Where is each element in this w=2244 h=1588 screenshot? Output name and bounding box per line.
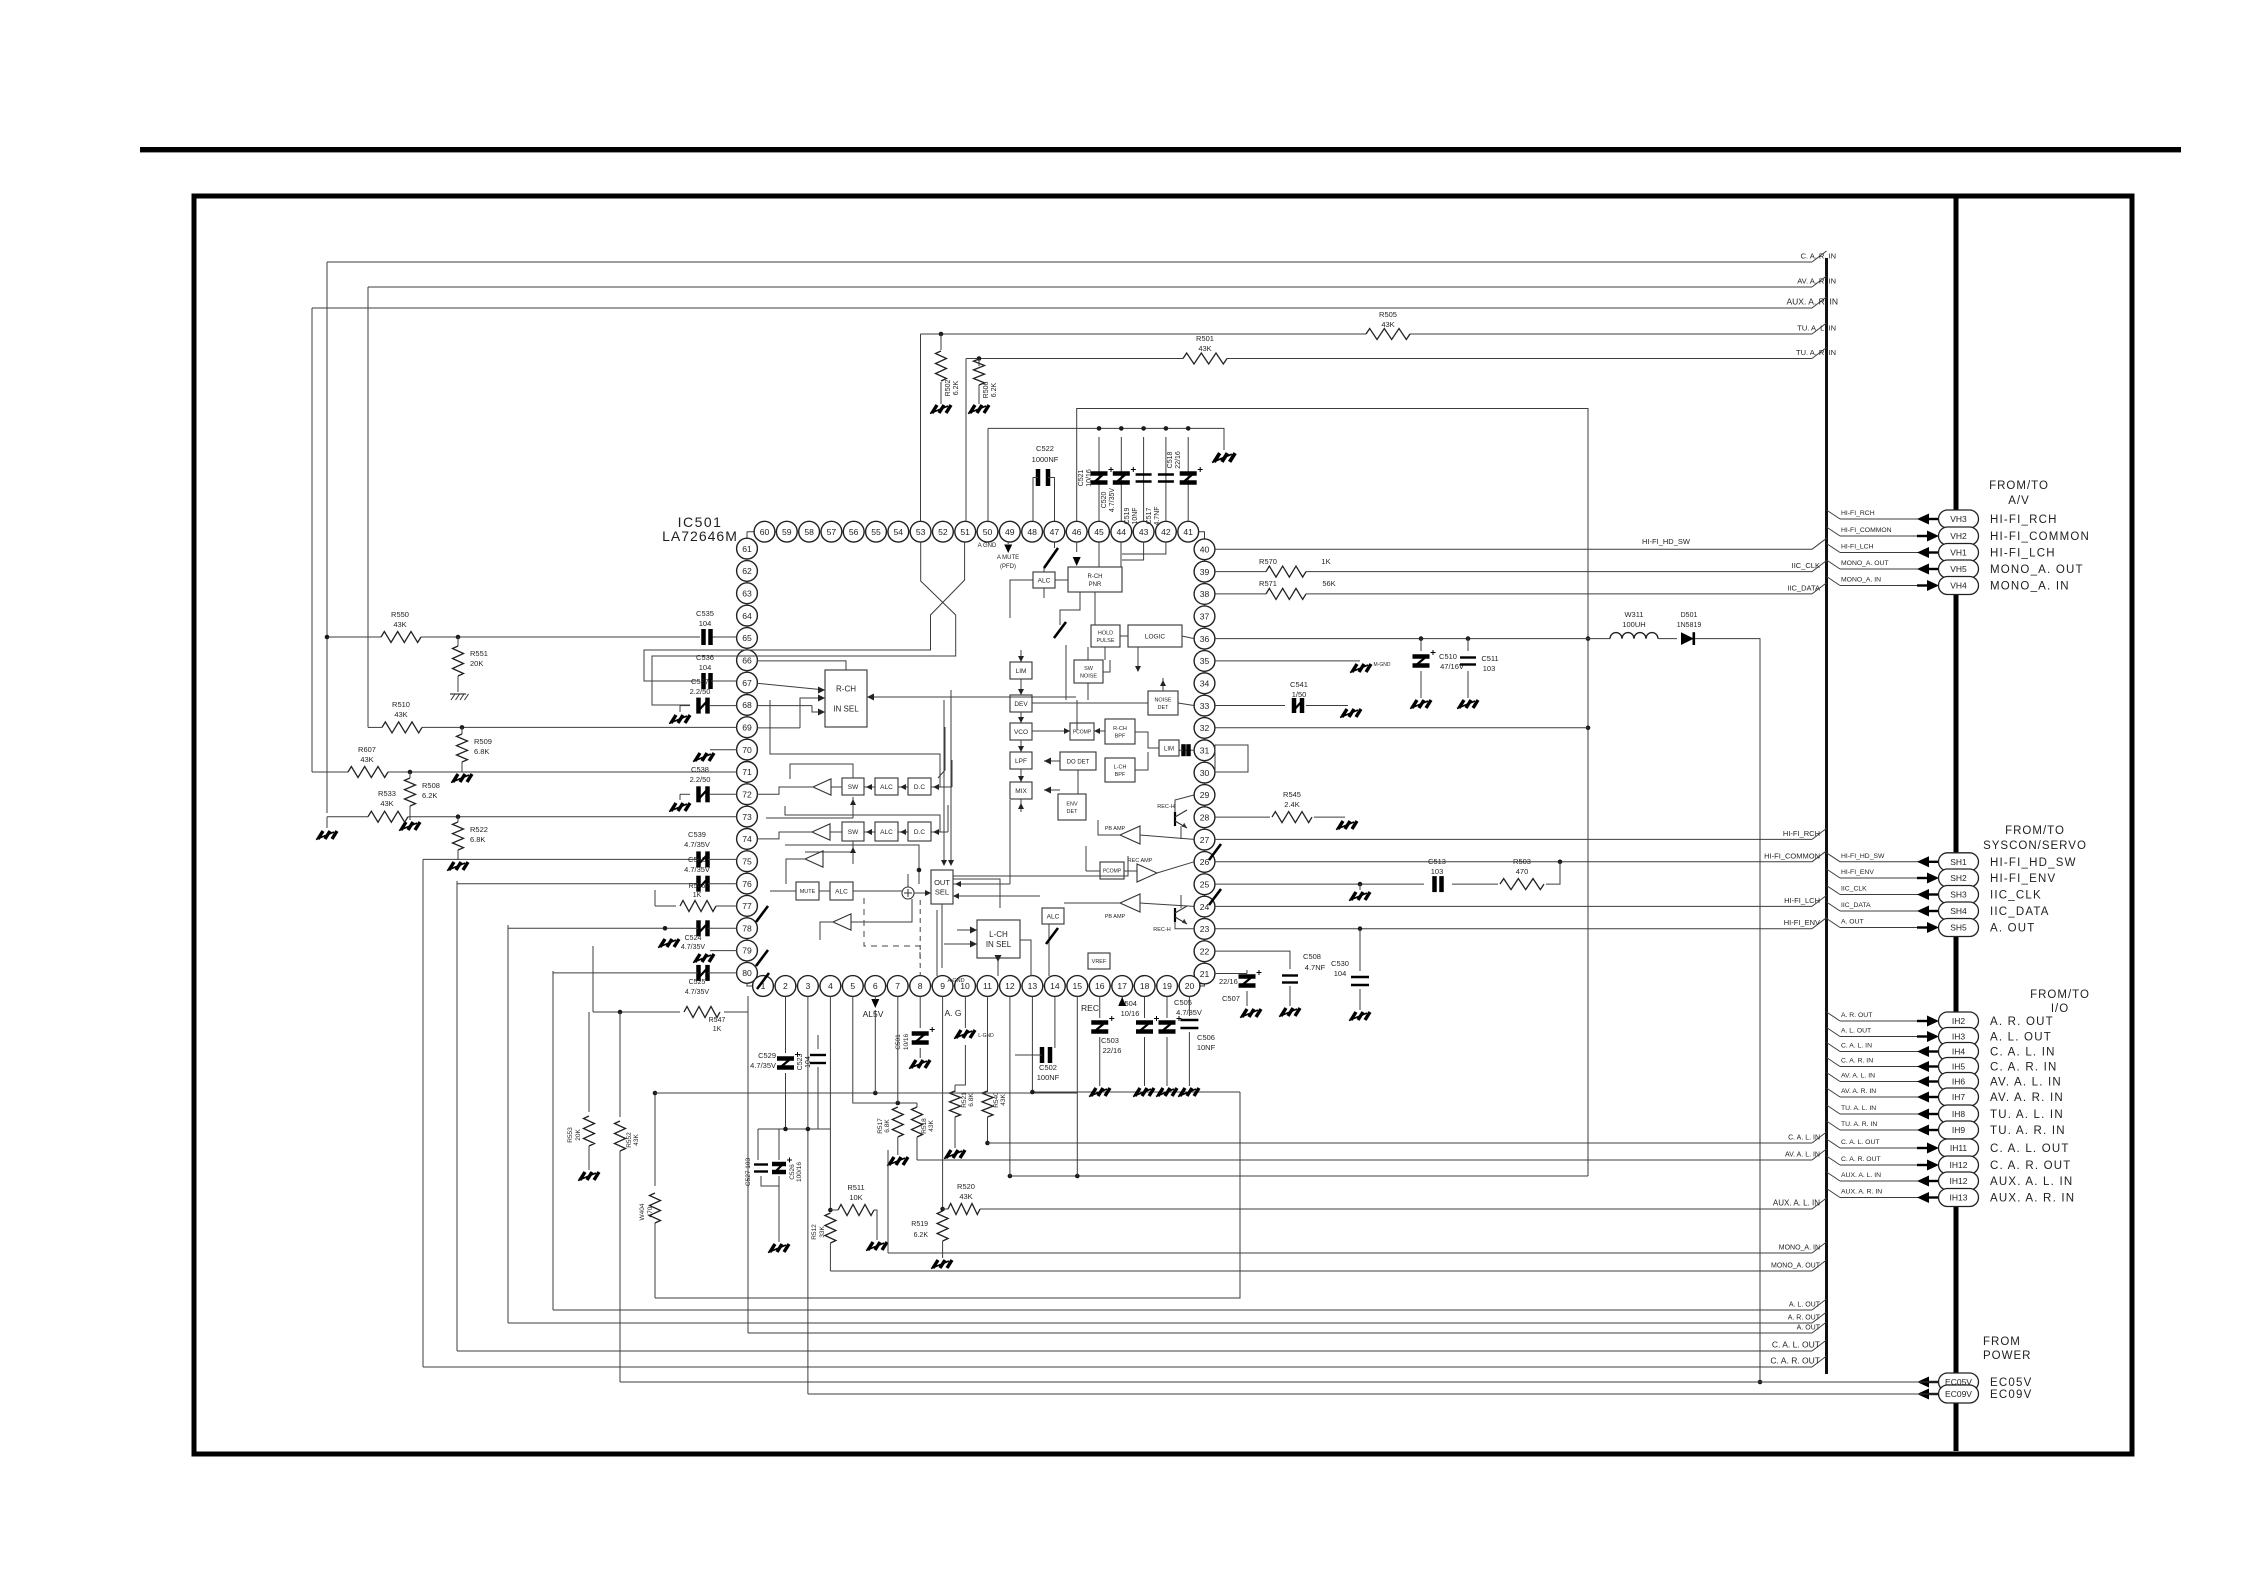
capacitor C530 bbox=[1331, 929, 1369, 1010]
svg-text:R550: R550 bbox=[391, 610, 409, 619]
svg-text:A. OUT: A. OUT bbox=[1841, 919, 1864, 926]
svg-text:ALC: ALC bbox=[1047, 913, 1060, 920]
svg-text:MUTE: MUTE bbox=[800, 889, 816, 895]
resistor R509 bbox=[457, 727, 492, 772]
svg-text:R-CH: R-CH bbox=[836, 685, 856, 694]
svg-text:37: 37 bbox=[1200, 611, 1210, 621]
svg-text:A. OUT: A. OUT bbox=[1990, 923, 2036, 935]
ground R545 bbox=[1336, 821, 1357, 830]
svg-text:C519: C519 bbox=[1124, 508, 1131, 525]
svg-text:TU. A. R. IN: TU. A. R. IN bbox=[1841, 1121, 1877, 1128]
wire pin17 arrow bbox=[1118, 996, 1126, 1006]
svg-text:TU. A. L. IN: TU. A. L. IN bbox=[1841, 1105, 1876, 1112]
svg-text:ENV: ENV bbox=[1066, 801, 1078, 807]
svg-text:7: 7 bbox=[895, 981, 900, 991]
block PCOMP 1 bbox=[1070, 723, 1094, 740]
capacitor C522 bbox=[1032, 444, 1059, 486]
wire TU.A.L.IN rail bbox=[921, 323, 1837, 336]
svg-text:VCO: VCO bbox=[1014, 729, 1028, 736]
svg-text:TU. A. L. IN: TU. A. L. IN bbox=[1990, 1109, 2064, 1121]
ground R533 bbox=[316, 817, 337, 840]
capacitor C503 bbox=[1091, 1016, 1121, 1086]
svg-text:IH9: IH9 bbox=[1952, 1125, 1966, 1135]
wire pin22 C508 bbox=[1215, 951, 1290, 969]
IC501 ring outline bbox=[747, 532, 1205, 986]
svg-text:R540: R540 bbox=[993, 1092, 1000, 1108]
svg-text:26: 26 bbox=[1200, 857, 1210, 867]
resistor R553 bbox=[567, 1012, 595, 1170]
svg-text:C502: C502 bbox=[1039, 1063, 1057, 1072]
pin49 A MUTE arrow bbox=[1004, 542, 1012, 553]
wire pin15 leg bbox=[1076, 996, 1078, 1176]
svg-text:44: 44 bbox=[1117, 527, 1127, 537]
svg-text:VH2: VH2 bbox=[1950, 531, 1967, 541]
wire pin50 A GND up bbox=[987, 428, 989, 521]
svg-text:11: 11 bbox=[983, 981, 992, 991]
svg-text:IIC_DATA: IIC_DATA bbox=[1990, 906, 2050, 918]
capacitor C513 bbox=[1428, 857, 1446, 892]
ground C526 bbox=[768, 1244, 789, 1253]
block L-CH BPF bbox=[1105, 758, 1135, 782]
svg-text:D.C: D.C bbox=[914, 829, 926, 836]
svg-text:AUX. A. L. IN: AUX. A. L. IN bbox=[1841, 1172, 1881, 1179]
ground R519 bbox=[931, 1260, 952, 1269]
switch pin 24 bbox=[1209, 889, 1221, 905]
wire pin20 C506 leg bbox=[1188, 996, 1190, 1016]
svg-text:6.2K: 6.2K bbox=[914, 1232, 929, 1239]
wire pin7 leg bbox=[897, 996, 899, 1103]
wire AV.A.R.IN vertical bbox=[367, 287, 369, 727]
block D.C 1 bbox=[908, 778, 931, 795]
label REC bbox=[1081, 1003, 1099, 1013]
wire pin5 leg bbox=[853, 996, 917, 1105]
wire pin10 A.G bbox=[944, 996, 965, 1028]
block ALC 4 bbox=[1042, 908, 1064, 924]
ground pin70 bbox=[693, 753, 714, 762]
amp PB AMP 1 bbox=[1105, 826, 1140, 844]
svg-text:R519: R519 bbox=[911, 1221, 928, 1228]
wire pin8 C501 leg bbox=[919, 996, 921, 1028]
svg-text:C. A. L. IN: C. A. L. IN bbox=[1841, 1043, 1872, 1050]
block D.C 2 bbox=[908, 822, 931, 841]
wire pin9 leg bbox=[942, 996, 944, 1209]
svg-text:58: 58 bbox=[804, 527, 814, 537]
svg-text:ALC: ALC bbox=[835, 888, 848, 895]
svg-text:PB AMP: PB AMP bbox=[1105, 914, 1126, 920]
wire y1298 rail bbox=[653, 1091, 1240, 1298]
resistor R510 bbox=[382, 700, 422, 733]
svg-text:SW: SW bbox=[848, 784, 859, 791]
svg-text:HI-FI_COMMON: HI-FI_COMMON bbox=[1990, 531, 2090, 543]
capacitor C529 bbox=[750, 1051, 800, 1129]
resistor R521 bbox=[950, 1085, 976, 1148]
transistor REC-H upper bbox=[1157, 804, 1187, 828]
svg-text:67: 67 bbox=[742, 678, 752, 688]
svg-text:43K: 43K bbox=[633, 1134, 640, 1146]
svg-text:IIC_DATA: IIC_DATA bbox=[1841, 902, 1871, 909]
capacitor C539 bbox=[684, 830, 737, 867]
svg-text:9: 9 bbox=[940, 981, 945, 991]
wire pin21 C507 bbox=[1215, 973, 1247, 975]
svg-text:59: 59 bbox=[782, 527, 792, 537]
svg-text:74: 74 bbox=[742, 834, 752, 844]
wire TU.A.R.IN rail bbox=[966, 348, 1836, 361]
diode D501 bbox=[1677, 612, 1702, 645]
svg-text:13: 13 bbox=[1028, 981, 1038, 991]
svg-text:A. L. OUT: A. L. OUT bbox=[1789, 1302, 1821, 1309]
schematic border frame bbox=[194, 196, 2132, 1454]
svg-text:AUX. A. L. IN: AUX. A. L. IN bbox=[1990, 1176, 2073, 1188]
svg-text:10/16: 10/16 bbox=[1121, 1009, 1140, 1018]
svg-text:16: 16 bbox=[1095, 981, 1105, 991]
label A GND pin10 bbox=[947, 978, 964, 984]
svg-text:20K: 20K bbox=[575, 1129, 582, 1141]
IC501 reference label bbox=[662, 514, 738, 544]
svg-text:R503: R503 bbox=[1513, 857, 1531, 866]
capacitor C501 bbox=[895, 1027, 935, 1058]
svg-text:IH2: IH2 bbox=[1952, 1016, 1966, 1026]
svg-text:C. A. R. IN: C. A. R. IN bbox=[1801, 252, 1836, 261]
svg-text:53: 53 bbox=[916, 527, 926, 537]
svg-text:LA72646M: LA72646M bbox=[662, 528, 738, 544]
svg-text:R552: R552 bbox=[626, 1132, 633, 1148]
connector IH4 C. A. L. IN bbox=[1827, 1043, 2056, 1061]
svg-text:HI-FI_ENV: HI-FI_ENV bbox=[1990, 873, 2056, 885]
block HOLD PULSE bbox=[1091, 625, 1120, 647]
block LIM 2 bbox=[1159, 740, 1179, 756]
wire pin16 C503 leg bbox=[1099, 996, 1101, 1018]
svg-text:MIX: MIX bbox=[1015, 788, 1027, 795]
svg-text:71: 71 bbox=[742, 767, 752, 777]
capacitor C502 bbox=[1015, 1047, 1060, 1082]
header FROM/TO I/O bbox=[2030, 989, 2090, 1015]
svg-text:43K: 43K bbox=[959, 1192, 972, 1201]
ground C538 bbox=[669, 803, 690, 812]
svg-text:PULSE: PULSE bbox=[1096, 638, 1114, 644]
switch pin 79 bbox=[756, 950, 768, 966]
wire pin24 HI-FI_LCH rail bbox=[1215, 895, 1827, 906]
svg-text:M-GND: M-GND bbox=[1374, 662, 1391, 668]
resistor R502 bbox=[936, 334, 961, 404]
block MUTE bbox=[796, 882, 819, 900]
svg-text:R521: R521 bbox=[961, 1092, 968, 1108]
ground R508 bbox=[399, 822, 420, 831]
svg-text:C510: C510 bbox=[1439, 652, 1457, 661]
svg-text:22/16: 22/16 bbox=[1175, 451, 1182, 469]
ground C503 bbox=[1089, 1088, 1110, 1097]
ground A GND rail bbox=[1212, 453, 1235, 462]
svg-text:R501: R501 bbox=[1196, 334, 1214, 343]
svg-text:43K: 43K bbox=[360, 755, 373, 764]
svg-text:22: 22 bbox=[1200, 946, 1210, 956]
block R-CH PNR bbox=[1068, 567, 1122, 592]
resistor R505 bbox=[1366, 310, 1410, 340]
ground C507 bbox=[1240, 1009, 1261, 1018]
svg-text:C517: C517 bbox=[1146, 508, 1153, 525]
svg-text:65: 65 bbox=[742, 633, 752, 643]
wire pin12 leg bbox=[1009, 996, 1011, 1176]
svg-text:A. L. OUT: A. L. OUT bbox=[1990, 1032, 2052, 1044]
label A MUTE bbox=[997, 555, 1019, 570]
svg-text:C. A. R. OUT: C. A. R. OUT bbox=[1770, 1356, 1820, 1366]
svg-text:HI-FI_COMMON: HI-FI_COMMON bbox=[1764, 851, 1820, 860]
svg-text:33K: 33K bbox=[819, 1226, 826, 1238]
wire REC rail y1176 bbox=[1008, 1174, 1588, 1179]
resistor R570 bbox=[1259, 557, 1331, 577]
svg-text:EC09V: EC09V bbox=[1990, 1389, 2032, 1401]
resistor R522 bbox=[453, 817, 488, 860]
svg-text:31: 31 bbox=[1200, 745, 1210, 755]
svg-text:69: 69 bbox=[742, 722, 752, 732]
capacitor C504 bbox=[1119, 999, 1159, 1086]
svg-text:23: 23 bbox=[1200, 924, 1210, 934]
svg-text:MONO_A. OUT: MONO_A. OUT bbox=[1771, 1263, 1821, 1270]
svg-text:OUT: OUT bbox=[934, 878, 950, 887]
svg-text:LOGIC: LOGIC bbox=[1145, 633, 1166, 640]
svg-text:35: 35 bbox=[1200, 656, 1210, 666]
wire pin46 B+ net bbox=[1077, 409, 1591, 1177]
wire pin6 down bbox=[874, 1010, 876, 1093]
svg-text:D501: D501 bbox=[1681, 612, 1698, 619]
svg-text:56: 56 bbox=[849, 527, 859, 537]
svg-text:42: 42 bbox=[1161, 527, 1171, 537]
svg-text:A. OUT: A. OUT bbox=[1797, 1325, 1821, 1332]
svg-text:10NF: 10NF bbox=[1132, 507, 1139, 524]
block VCO bbox=[1010, 723, 1032, 740]
svg-text:R520: R520 bbox=[957, 1182, 975, 1191]
svg-text:SW: SW bbox=[848, 829, 859, 836]
ground R502 bbox=[930, 405, 951, 414]
wire EC05V rail bbox=[620, 1381, 1916, 1383]
ground C508 bbox=[1279, 1008, 1300, 1017]
svg-text:4.7/35V: 4.7/35V bbox=[1109, 488, 1116, 512]
wire MONO_A.IN rail bbox=[888, 1242, 1827, 1253]
svg-text:SH4: SH4 bbox=[1950, 906, 1967, 916]
svg-text:C522: C522 bbox=[1036, 444, 1054, 453]
svg-text:4.7/35V: 4.7/35V bbox=[684, 865, 710, 874]
svg-text:C. A. R. OUT: C. A. R. OUT bbox=[1990, 1160, 2072, 1172]
wire A GND rail bbox=[988, 426, 1224, 450]
capacitor C525 bbox=[685, 965, 737, 996]
svg-text:TU. A. R. IN: TU. A. R. IN bbox=[1796, 348, 1836, 357]
wire pin3 EC09V leg bbox=[807, 996, 809, 1394]
wire pin14 C502 bbox=[1054, 996, 1056, 1048]
wire pin51 up bbox=[965, 359, 967, 522]
connector IH5 C. A. R. IN bbox=[1827, 1058, 2058, 1076]
svg-text:15: 15 bbox=[1073, 981, 1083, 991]
capacitor C540 bbox=[684, 855, 737, 892]
svg-text:HOLD: HOLD bbox=[1098, 630, 1113, 636]
wire pin69 rail bbox=[368, 725, 737, 730]
svg-text:41: 41 bbox=[1183, 527, 1193, 537]
switch pin 47 inner bbox=[1054, 622, 1066, 638]
resistor R540 bbox=[982, 996, 1007, 1143]
svg-text:43K: 43K bbox=[1000, 1094, 1007, 1106]
svg-text:10K: 10K bbox=[849, 1193, 862, 1202]
capacitor C506 bbox=[1180, 1020, 1215, 1086]
svg-text:1K: 1K bbox=[1321, 557, 1330, 566]
capacitor C507 bbox=[1219, 970, 1262, 1006]
svg-text:IH4: IH4 bbox=[1952, 1047, 1966, 1057]
wire pin39 IIC_CLK rail bbox=[1215, 561, 1827, 572]
wire pin1 A.OUT net bbox=[747, 996, 749, 1333]
svg-text:68: 68 bbox=[742, 700, 752, 710]
svg-text:C508: C508 bbox=[1303, 952, 1321, 961]
section divider line bbox=[1954, 198, 1959, 1451]
svg-text:77: 77 bbox=[742, 901, 752, 911]
svg-text:SH5: SH5 bbox=[1950, 923, 1967, 933]
wire pin65 rail bbox=[325, 635, 737, 640]
svg-text:38: 38 bbox=[1200, 589, 1210, 599]
capacitor C520 bbox=[1101, 437, 1136, 521]
svg-text:AV. A. R. IN: AV. A. R. IN bbox=[1797, 277, 1836, 286]
wire pin36 supply rail bbox=[1215, 636, 1610, 641]
buffer amp 4 bbox=[833, 914, 851, 930]
svg-text:C521: C521 bbox=[1078, 470, 1085, 487]
wire C.A.L.IN rail bbox=[985, 1132, 1826, 1145]
svg-text:25: 25 bbox=[1200, 879, 1210, 889]
svg-text:10/16: 10/16 bbox=[1086, 469, 1093, 487]
svg-text:IH13: IH13 bbox=[1950, 1193, 1968, 1203]
svg-text:LPF: LPF bbox=[1015, 758, 1027, 765]
svg-text:A GND: A GND bbox=[947, 978, 964, 984]
resistor R511 bbox=[828, 1183, 877, 1240]
svg-text:2.2/50: 2.2/50 bbox=[690, 687, 711, 696]
block SW NOISE bbox=[1074, 660, 1103, 683]
svg-text:C535: C535 bbox=[696, 609, 714, 618]
svg-text:4.7/35V: 4.7/35V bbox=[750, 1061, 776, 1070]
wire D501 down bbox=[1695, 639, 1762, 1385]
svg-text:REC-H: REC-H bbox=[1153, 927, 1170, 933]
svg-text:43K: 43K bbox=[394, 710, 407, 719]
svg-text:C529: C529 bbox=[758, 1051, 776, 1060]
wire A.R.OUT rail bbox=[508, 1312, 1827, 1323]
svg-text:1/50: 1/50 bbox=[1292, 690, 1307, 699]
svg-text:6.8K: 6.8K bbox=[470, 835, 485, 844]
svg-text:HI-FI_HD_SW: HI-FI_HD_SW bbox=[1642, 537, 1691, 546]
connector IH8 TU. A. L. IN bbox=[1827, 1105, 2064, 1123]
svg-text:VH5: VH5 bbox=[1950, 564, 1967, 574]
svg-text:R517: R517 bbox=[877, 1118, 884, 1134]
svg-text:A. G: A. G bbox=[944, 1008, 961, 1018]
svg-text:SH3: SH3 bbox=[1950, 890, 1967, 900]
wire C.A.L.OUT rail bbox=[457, 1340, 1827, 1352]
svg-text:IH6: IH6 bbox=[1952, 1077, 1966, 1087]
svg-text:IH12: IH12 bbox=[1950, 1176, 1968, 1186]
ground C530 bbox=[1349, 1012, 1370, 1021]
loop wire pin 31-30 bbox=[1215, 745, 1248, 772]
block DEV bbox=[1010, 695, 1032, 712]
svg-text:C. A. R. OUT: C. A. R. OUT bbox=[1841, 1156, 1881, 1163]
svg-text:R571: R571 bbox=[1259, 579, 1277, 588]
svg-text:A/V: A/V bbox=[2008, 495, 2030, 507]
wire C.A.R.IN rail bbox=[327, 251, 1836, 262]
svg-text:NOISE: NOISE bbox=[1080, 673, 1097, 679]
svg-text:C538: C538 bbox=[691, 765, 709, 774]
svg-text:AUX. A. R. IN: AUX. A. R. IN bbox=[1841, 1189, 1882, 1196]
svg-text:2.4K: 2.4K bbox=[1284, 800, 1299, 809]
svg-text:6.8K: 6.8K bbox=[968, 1093, 975, 1107]
svg-text:AV. A. R. IN: AV. A. R. IN bbox=[1990, 1092, 2064, 1104]
capacitor C537 bbox=[680, 677, 737, 714]
svg-text:1K: 1K bbox=[693, 892, 702, 899]
svg-text:R518: R518 bbox=[921, 1118, 928, 1134]
svg-text:C539: C539 bbox=[688, 830, 706, 839]
svg-text:ALC: ALC bbox=[880, 784, 893, 791]
svg-text:AL5V: AL5V bbox=[863, 1009, 884, 1019]
ground R551 hatch bbox=[450, 694, 469, 700]
block ALC 3 bbox=[830, 882, 853, 900]
wire pin40 HD_SW rail bbox=[1215, 537, 1827, 549]
wire pin27 HI-FI_RCH rail bbox=[1215, 828, 1827, 839]
svg-text:76: 76 bbox=[742, 879, 752, 889]
svg-text:VH1: VH1 bbox=[1950, 548, 1967, 558]
svg-text:HI-FI_RCH: HI-FI_RCH bbox=[1990, 514, 2058, 526]
IC501 pin circles 1-80 bbox=[737, 521, 1215, 996]
svg-text:MONO_A. IN: MONO_A. IN bbox=[1841, 577, 1881, 584]
wire pin26 HI-FI_COMMON rail bbox=[1215, 851, 1827, 864]
svg-text:L-GND: L-GND bbox=[978, 1033, 994, 1039]
svg-text:MONO_A. OUT: MONO_A. OUT bbox=[1990, 564, 2084, 576]
svg-text:POWER: POWER bbox=[1983, 1350, 2031, 1362]
wire MONO_A.IN leg bbox=[887, 1150, 889, 1253]
svg-text:54: 54 bbox=[894, 527, 904, 537]
switch pin 26 bbox=[1209, 844, 1221, 860]
connector IH6 AV. A. L. IN bbox=[1827, 1073, 2062, 1091]
resistor R518 bbox=[912, 1103, 936, 1160]
connector SH3 bbox=[1827, 886, 2042, 904]
svg-text:56K: 56K bbox=[1322, 579, 1335, 588]
block LOGIC bbox=[1128, 625, 1182, 647]
svg-text:R607: R607 bbox=[358, 745, 376, 754]
svg-text:20: 20 bbox=[1185, 981, 1195, 991]
block NOISE DET bbox=[1148, 691, 1178, 715]
label A GND pin50 bbox=[978, 543, 997, 549]
svg-text:43K: 43K bbox=[380, 799, 393, 808]
ground R521 bbox=[944, 1150, 965, 1159]
svg-text:R547: R547 bbox=[709, 1017, 726, 1024]
svg-text:HI-FI_COMMON: HI-FI_COMMON bbox=[1841, 527, 1892, 534]
svg-text:C523: C523 bbox=[797, 1054, 804, 1071]
capacitor C527 bbox=[745, 1158, 768, 1187]
block PCOMP 2 bbox=[1100, 862, 1124, 879]
svg-text:HI-FI_LCH: HI-FI_LCH bbox=[1990, 548, 2056, 560]
transistor REC-H lower bbox=[1153, 906, 1187, 933]
wire EC09V rail bbox=[808, 1393, 1916, 1395]
svg-text:D.C: D.C bbox=[914, 784, 926, 791]
wire W311-D501 bbox=[1658, 638, 1677, 640]
resistor R533 bbox=[368, 789, 408, 822]
header FROM/TO SYSCON/SERVO bbox=[1983, 825, 2087, 852]
connector IH9 TU. A. R. IN bbox=[1827, 1121, 2066, 1139]
svg-text:43: 43 bbox=[1139, 527, 1149, 537]
svg-text:VH3: VH3 bbox=[1950, 514, 1967, 524]
ground C537 bbox=[669, 715, 690, 724]
svg-text:40: 40 bbox=[1200, 545, 1210, 555]
svg-text:R522: R522 bbox=[470, 825, 488, 834]
svg-text:R502: R502 bbox=[945, 380, 952, 397]
svg-text:C525: C525 bbox=[689, 979, 706, 986]
ground R522 bbox=[447, 862, 468, 871]
svg-text:43K: 43K bbox=[928, 1120, 935, 1132]
ground pin25 stub bbox=[1349, 884, 1370, 900]
resistor R545 bbox=[1272, 790, 1345, 823]
svg-text:SEL: SEL bbox=[935, 888, 949, 897]
wire AUX.A.L.IN rail bbox=[980, 1198, 1827, 1209]
svg-text:MONO_A. IN: MONO_A. IN bbox=[1779, 1245, 1820, 1252]
svg-text:49: 49 bbox=[1005, 527, 1015, 537]
svg-text:C506: C506 bbox=[1197, 1033, 1215, 1042]
